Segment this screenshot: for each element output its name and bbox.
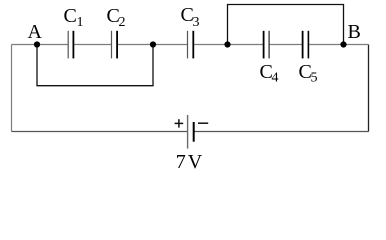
capacitor C2 [112,31,118,59]
svg-text:1: 1 [77,15,84,30]
svg-text:7: 7 [176,151,186,173]
label C1 [64,5,84,30]
battery plus sign [175,119,184,127]
node junction dot between C3 and C4 [224,41,230,47]
wire: bottom left segment to battery [12,131,188,133]
label C5 [299,61,318,85]
capacitor C4 [264,31,270,59]
wire: top main horizontal, corner to C1 [12,44,69,46]
battery minus sign [198,122,208,124]
label C3 [181,4,200,30]
node A junction dot [34,41,40,47]
svg-text:V: V [188,151,203,173]
label C4 [260,61,279,85]
wire: lower bypass branch around C1 C2 [37,45,153,86]
wire: outer loop left edge [11,45,13,132]
capacitor C5 [303,31,309,59]
wire: between C1 and C2 [74,44,112,46]
battery V1 short negative plate [193,122,195,142]
wire: upper bypass branch around C4 C5 [228,5,344,45]
svg-text:C: C [64,5,77,27]
node B junction dot [340,41,346,47]
svg-text:A: A [28,21,43,43]
wire: C5 to right edge through B [309,44,369,46]
wire: bottom right segment from battery [194,131,369,133]
battery V1 long positive plate [187,115,189,149]
svg-text:3: 3 [193,15,200,30]
svg-text:4: 4 [272,70,279,85]
node junction dot between C2 and C3 [150,41,156,47]
svg-text:B: B [348,21,361,43]
svg-text:2: 2 [119,15,126,30]
svg-text:5: 5 [311,70,318,85]
wire: between C2 and C3 [117,44,187,46]
wire: between C4 and C5 [269,44,302,46]
wire: between C3 and C4 [193,44,263,46]
wire: outer loop right edge [368,45,370,132]
capacitor C3 [188,31,194,59]
label C2 [107,5,126,30]
capacitor C1 [68,31,73,59]
